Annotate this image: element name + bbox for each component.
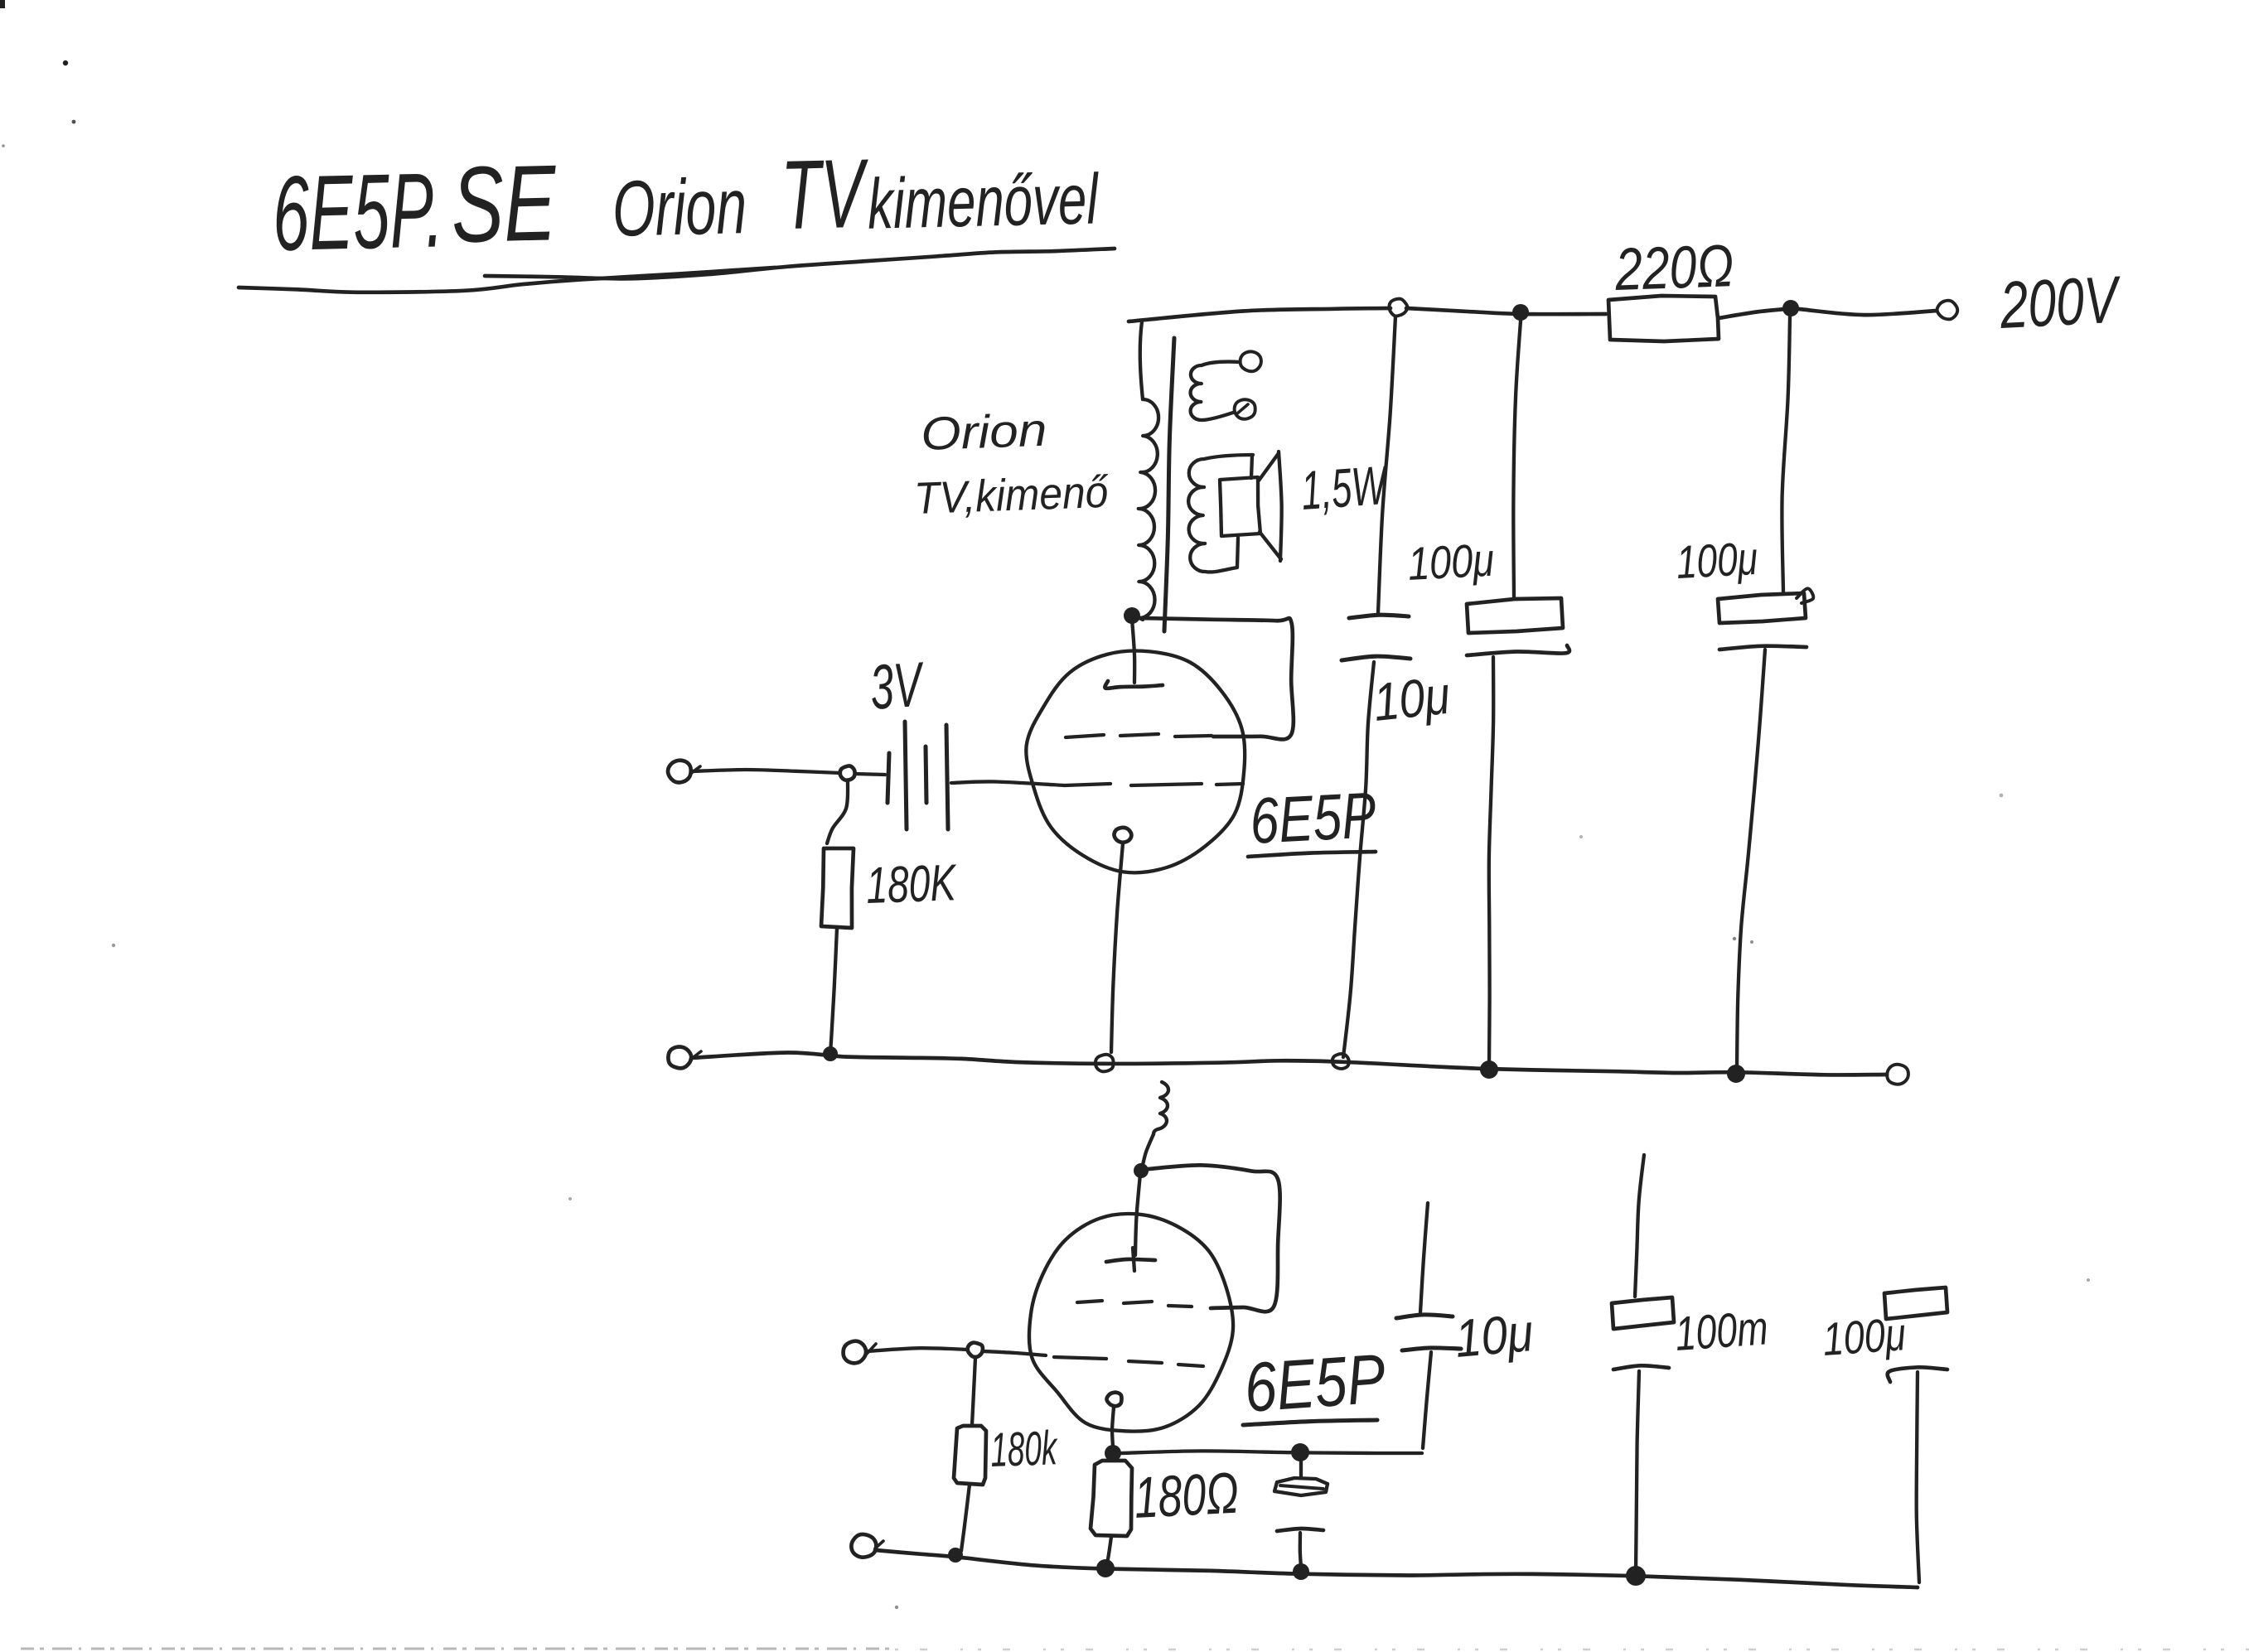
node: rail junction to C3 100u [1512,304,1529,321]
svg-text:3V: 3V [868,650,927,723]
node: R2 to ground junction [823,1046,838,1061]
resistor R3 180k (bottom) [972,1358,975,1425]
terminal: ground left bottom (open circle) [851,1534,876,1558]
svg-text:6E5P: 6E5P [1248,778,1377,857]
node: rail junction to C4 100u [1782,300,1799,316]
svg-text:6E5P: 6E5P [1242,1339,1388,1427]
node: anode junction A2 [1134,1163,1149,1178]
capacitor C1 coupling, 3V bias [855,774,885,775]
terminal: ground right top (open circle) [1887,1065,1908,1084]
tube V1 control grid g1 [1065,784,1110,785]
wire: ground rail bottom circuit [875,1550,1918,1587]
svg-text:220Ω: 220Ω [1613,233,1735,303]
terminal: secondary tap lower [1235,399,1255,418]
wire: g2 tie box (top tube) [1139,618,1294,739]
tube V1 envelope [1026,651,1245,873]
tube V2 envelope [1029,1214,1233,1432]
tube V2 control grid g1 [1054,1357,1106,1359]
transformer T1 primary winding [1139,321,1158,618]
node: rail junction to C2 10u (open) [1389,299,1407,316]
capacitor C3 100u [1513,321,1521,598]
svg-text:180K: 180K [865,854,958,915]
svg-text:100m: 100m [1673,1301,1769,1361]
speaker LS1 cone [1259,453,1279,481]
capacitor C2 10u [1378,316,1395,613]
svg-text:100μ: 100μ [1675,532,1758,588]
svg-text:180Ω: 180Ω [1133,1460,1241,1529]
node: C7 to ground [1626,1566,1646,1586]
svg-text:180k: 180k [989,1421,1059,1477]
node: grid junction bottom (small circle) [968,1343,983,1357]
svg-text:100μ: 100μ [1406,534,1495,590]
tube V2 cathode [1106,1393,1121,1407]
resistor R2 180K [827,780,848,843]
wire: B+ rail from transformer to 10u junction [1129,308,1391,321]
terminal: 200V supply (open circle) [1937,301,1958,320]
node: C2 to ground (open circle) [1332,1054,1349,1069]
node: cathode to ground (open circle) [1095,1055,1114,1072]
terminal: input bottom (open circle) [844,1341,866,1364]
transformer T1 secondary (speaker) winding [1188,455,1253,572]
wire: R1 to 100u junction [1719,309,1786,318]
title underline [485,249,1115,278]
tube V2 anode [1135,1174,1140,1255]
node: bypass cap junction [1291,1443,1309,1461]
node: R3 to ground junction [948,1548,963,1563]
svg-text:kimenővel: kimenővel [867,159,1100,244]
wire: rail junction to 100u junction [1406,308,1606,314]
node: cathode junction [1105,1445,1121,1461]
capacitor C8 100u (bottom right) [1884,1287,1947,1319]
svg-text:Orion: Orion [920,403,1047,460]
terminal: ground left top (open circle) [668,1047,691,1069]
node: grid junction (small circle) [840,766,855,780]
svg-text:TV: TV [780,139,870,250]
svg-text:10μ: 10μ [1453,1302,1536,1369]
tube V1 anode [1132,619,1134,683]
wire: rail to 200V terminal [1799,309,1937,315]
svg-text:1,5W: 1,5W [1299,454,1391,521]
transformer T2 winding (squiggle) [1154,1082,1168,1134]
capacitor C4 100u [1782,316,1790,592]
terminal: input top (open circle) [668,761,691,783]
wire: cathode V1 to ground rail [1111,843,1123,1052]
node: C4 to ground [1727,1065,1745,1083]
node: R4 to ground [1096,1559,1115,1577]
capacitor C5 10u (bottom) [1420,1203,1428,1312]
svg-text:10μ: 10μ [1371,665,1453,732]
svg-text:100μ: 100μ [1821,1307,1907,1365]
tube V2 screen grid g2 [1077,1301,1102,1302]
tube V1 cathode [1114,828,1131,843]
wire: input to grid junction [691,770,840,773]
svg-text:SE: SE [450,142,558,265]
wire: input to grid junction (bottom) [867,1348,968,1351]
transformer T1 secondary (tap) winding [1191,362,1240,420]
tube V1 screen grid g2 [1066,735,1104,737]
svg-text:Orion: Orion [612,162,747,254]
capacitor C6 cathode bypass [1299,1461,1303,1476]
node: anode junction A1 [1124,607,1140,624]
svg-text:TV,kimenő: TV,kimenő [913,467,1110,524]
node: C3 to ground [1480,1060,1498,1079]
wire: g2 tie box (bottom tube) [1149,1165,1280,1311]
capacitor C7 100u (bottom) [1635,1155,1644,1297]
resistor R1 220 ohm [1608,296,1719,341]
wire: ground rail top circuit [691,1052,1887,1075]
title: 6E5P SE Orion TV kimenovel [271,129,1100,273]
resistor R4 180 ohm [1091,1461,1132,1536]
wire: cathode V2 down [1112,1407,1114,1447]
svg-text:200V: 200V [1997,262,2123,342]
wire: cathode bus to C5 [1121,1451,1422,1453]
node: C6 to ground [1293,1563,1309,1580]
terminal: secondary tap upper [1241,351,1261,371]
speaker LS1 coil box [1251,455,1252,478]
transformer T1 core [1164,338,1174,631]
wire: grid junction into tube [983,1351,1046,1355]
svg-text:6E5P.: 6E5P. [271,151,444,273]
